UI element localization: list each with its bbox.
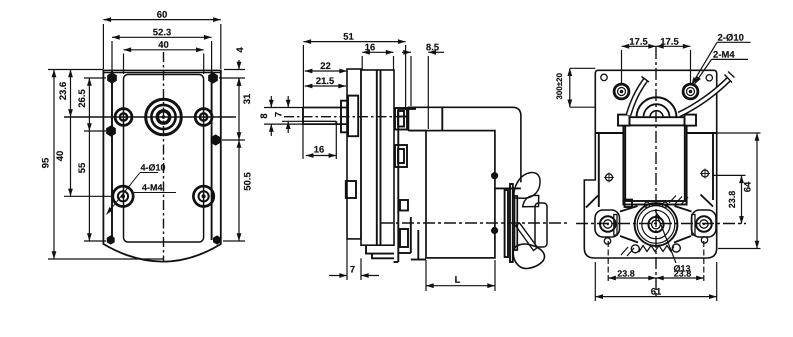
bell top bump left <box>644 202 649 207</box>
screw mid-right <box>211 134 221 145</box>
hub step large <box>348 96 358 137</box>
stator lamination stack <box>426 131 495 258</box>
stack corner chamfer right <box>701 195 714 207</box>
label L <box>455 276 460 283</box>
bell-ear link bottom right <box>674 236 691 243</box>
dim 40 top <box>123 54 125 75</box>
corner screw TL <box>601 74 607 80</box>
screw bottom-right <box>213 235 221 244</box>
fan hub washer 2 <box>510 184 513 262</box>
dim 61 <box>594 262 596 301</box>
label 17.5 right <box>661 38 679 45</box>
dim 22 <box>305 70 347 72</box>
bracket foot steps <box>410 217 412 253</box>
dim 23.6 <box>70 70 72 118</box>
bell top bump right <box>662 202 667 207</box>
dim 64 <box>716 132 761 134</box>
motor bracket <box>397 109 399 262</box>
winding arc outer <box>637 97 677 117</box>
dim 55 <box>84 240 106 242</box>
bolt column left <box>111 71 113 241</box>
label 23.8 right <box>729 191 735 208</box>
label 8.5 <box>426 44 439 51</box>
dim 8 shaft <box>264 107 303 109</box>
stack side right <box>712 133 714 200</box>
label 2-M4 <box>713 51 734 58</box>
label 4 <box>237 47 244 52</box>
bolt column right <box>211 71 213 241</box>
label 16 flat <box>314 146 324 153</box>
fan hub washer 3 <box>515 196 518 250</box>
dim 95 left <box>48 69 103 71</box>
rear boss lower a <box>400 200 408 211</box>
stack rivet upper <box>491 172 498 179</box>
shell seam <box>441 107 443 130</box>
hub inner <box>652 220 661 229</box>
callout 4-PHI10 <box>107 173 177 215</box>
stack top edge left <box>595 132 623 134</box>
label 16 <box>365 44 375 51</box>
corner screw BR <box>702 170 709 177</box>
bobbin bottom tab <box>625 200 633 207</box>
bell bottom screw right <box>672 244 680 252</box>
ear clamp bar left <box>614 215 617 236</box>
right side hole <box>195 109 212 126</box>
label 8 <box>260 114 267 119</box>
dim 21.5 <box>305 85 346 87</box>
winding arc middle <box>644 104 670 117</box>
ear clamp bar right <box>692 215 695 236</box>
lower hole boss on plate front <box>346 181 356 198</box>
dim 40 left chain <box>64 195 113 197</box>
shaft centerline <box>284 116 402 118</box>
label 61 <box>651 288 661 295</box>
dim 26.5 <box>84 77 106 79</box>
shell screw bottom-right <box>701 237 707 243</box>
left side hole <box>115 109 132 126</box>
fan end cap <box>535 203 547 247</box>
hub step small <box>341 101 348 133</box>
right side dims 4 / 31 / 50.5 <box>224 69 245 71</box>
vertical center line <box>163 52 165 262</box>
hub outer <box>648 217 663 232</box>
bell-ear link top left <box>620 206 638 212</box>
label 64 <box>744 182 751 192</box>
dim 7 plate thickness <box>346 239 348 280</box>
plate outline <box>103 71 220 262</box>
dim 23.8 23.8 bottom <box>607 241 609 282</box>
plate top edge thick <box>103 72 220 74</box>
fan blade mid petal <box>523 195 539 206</box>
callout 13 leader <box>656 211 677 263</box>
callout 2-10 leader <box>717 41 751 43</box>
winding band <box>630 117 685 125</box>
label 60 <box>157 11 167 18</box>
lead wire right <box>679 72 735 115</box>
rear view dimensions <box>570 42 761 301</box>
bobbin side left <box>622 126 624 204</box>
mount hole 10 right <box>683 84 698 99</box>
bell-ear link top right <box>675 206 692 212</box>
motor axis centerline <box>381 222 570 224</box>
rear view center lines <box>576 47 746 296</box>
rear view dim texts <box>556 34 750 295</box>
dim 16 gearbox <box>361 56 363 70</box>
fan blade bottom petal <box>513 244 544 269</box>
front view dimensions <box>48 20 245 259</box>
screw bottom-left <box>107 235 115 244</box>
label 7 plate <box>350 266 354 273</box>
vent hatch left <box>621 247 634 256</box>
corner screw TR <box>706 75 712 81</box>
dim texts front view <box>42 11 251 191</box>
label 7 <box>275 112 282 116</box>
dim 16 flat length <box>302 124 304 159</box>
shell screw bottom-left <box>604 238 610 244</box>
corner screw top-left <box>107 72 117 83</box>
lead wire left <box>629 77 650 116</box>
housing bottom step 1 <box>366 245 394 253</box>
dim L <box>425 260 427 291</box>
label 26.5 <box>78 90 85 108</box>
callout 4-M4 <box>142 184 162 190</box>
output shaft boss circles <box>146 99 182 135</box>
label 31 <box>243 94 250 104</box>
ear left outline <box>595 210 620 237</box>
winding arc inner <box>650 111 663 118</box>
horizontal center row line <box>64 116 236 118</box>
bracket outline <box>584 70 716 258</box>
motor shell outline <box>409 107 521 182</box>
corner screw top-right <box>208 72 218 83</box>
dim 52.3 <box>111 41 113 70</box>
label 95 <box>42 158 49 168</box>
label 23.8 bottom right <box>674 270 691 276</box>
fan blade upper petal <box>514 172 540 198</box>
bell-ear link bottom left <box>620 236 638 243</box>
stack side left <box>598 133 600 207</box>
stack top edge right <box>687 132 716 134</box>
rear bearing boss upper <box>395 108 407 130</box>
dim 23.8 right <box>712 174 746 176</box>
bell bottom screw left <box>631 245 639 253</box>
label 21.5 <box>316 77 334 84</box>
dim 51 <box>302 45 304 107</box>
shell bottom <box>495 187 521 189</box>
horizontal centerline <box>576 223 746 225</box>
winding band left tab <box>618 115 630 126</box>
winding band right tab <box>685 115 697 126</box>
side view dimensions <box>264 42 495 291</box>
ear right bolt <box>696 216 712 232</box>
dim 7 shaft flat <box>282 120 303 122</box>
face plate side <box>347 69 361 239</box>
dim 8.5 <box>410 56 412 106</box>
inner gasket rounded rect <box>124 75 204 243</box>
bobbin side right <box>686 126 688 204</box>
dim 300±20 <box>570 67 595 69</box>
lower-left mounting hole 4-M4 <box>113 186 133 206</box>
label 17.5 left <box>630 38 648 45</box>
label 2-10 <box>718 34 744 41</box>
end bell outer circle <box>635 203 678 246</box>
lower-right mounting hole <box>193 186 213 206</box>
dim 17.5 17.5 <box>621 50 623 83</box>
fan blade diagonal <box>516 223 538 251</box>
label 300±20 <box>556 73 562 99</box>
vent hatch right <box>669 196 688 205</box>
callout 2-M4 leader <box>712 58 749 60</box>
stack rivet lower <box>491 227 498 234</box>
vertical centerline <box>655 47 657 296</box>
rear boss lower b <box>400 229 408 247</box>
label 23.8 bottom left <box>618 270 635 276</box>
ear left bolt <box>600 216 616 232</box>
fan hub washer 1 <box>505 190 508 257</box>
dim 60 <box>102 24 104 69</box>
output shaft <box>303 107 347 109</box>
end bell ring 3 <box>642 210 670 238</box>
screw mid-left <box>106 125 116 136</box>
ear right outline <box>692 210 717 237</box>
housing joint lines <box>376 70 378 245</box>
side view dim texts <box>260 33 460 283</box>
corner screw BL <box>606 174 613 181</box>
housing bottom step 2 <box>372 254 394 259</box>
label 55 <box>79 163 86 173</box>
stack corner chamfer left <box>586 196 598 208</box>
end bell ring 2 <box>637 206 675 244</box>
mount hole 10 left <box>614 84 629 99</box>
label 40 <box>158 41 168 48</box>
label 23.6 <box>59 82 66 100</box>
label 22 <box>321 62 331 69</box>
label 40 left <box>56 151 63 161</box>
label 50.5 <box>244 173 251 191</box>
bobbin bottom band <box>623 201 686 205</box>
rear gear boss middle <box>395 145 407 167</box>
label 51 <box>344 33 354 40</box>
label 52.3 <box>153 29 171 36</box>
label 13 <box>674 265 690 272</box>
spring squiggle <box>639 246 674 253</box>
gear housing <box>361 70 394 245</box>
